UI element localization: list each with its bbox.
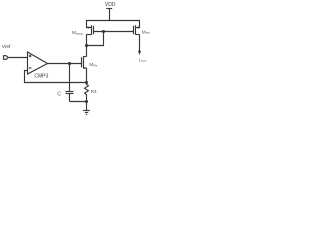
svg-text:VDD: VDD — [105, 2, 116, 8]
wire bottom node line — [70, 101, 87, 103]
label MRla — [89, 62, 97, 68]
wire diode connection — [87, 32, 104, 46]
label CMP3 — [34, 73, 48, 79]
wire Iout drain down — [139, 35, 141, 52]
svg-text:M: M — [72, 30, 76, 36]
transistor MPTI (right PMOS) — [134, 25, 140, 35]
wire R4 bottom — [86, 95, 88, 111]
op-amp CMP3 — [28, 52, 48, 74]
port Vref input pin — [4, 56, 9, 60]
wire left drain down — [86, 35, 88, 57]
svg-text:R4: R4 — [91, 89, 97, 95]
wire left source drop — [87, 21, 92, 28]
VDD power symbol — [106, 9, 112, 21]
svg-text:Vref: Vref — [2, 44, 11, 50]
node output/C junction — [68, 62, 71, 65]
label Iout — [139, 57, 147, 63]
svg-text:CMP3: CMP3 — [34, 73, 48, 79]
svg-text:OUT: OUT — [141, 59, 147, 63]
node feedback junction — [85, 81, 88, 84]
svg-text:M: M — [142, 29, 146, 35]
wire Vref to +input — [8, 57, 28, 59]
node gate-drain junction — [102, 30, 105, 33]
ground — [83, 111, 90, 115]
label C — [57, 91, 61, 97]
label MPTI — [142, 29, 151, 35]
wire shared gate line — [94, 31, 134, 33]
capacitor C — [66, 64, 74, 102]
svg-text:M: M — [89, 62, 93, 68]
label R4 — [91, 89, 97, 95]
transistor MRla (NMOS) — [82, 56, 87, 69]
svg-text:PTCB: PTCB — [76, 32, 83, 36]
VDD label — [105, 2, 116, 8]
wire feedback line — [25, 71, 87, 83]
node drain junction — [85, 44, 88, 47]
wire right source drop — [136, 21, 141, 28]
wire VDD rail — [86, 20, 140, 22]
label Vref — [2, 44, 11, 50]
svg-text:PTI: PTI — [146, 31, 151, 35]
transistor MPTCB (left PMOS) — [87, 25, 94, 35]
Iout arrowhead — [138, 51, 141, 55]
wire source down to node — [86, 68, 88, 84]
svg-text:C: C — [57, 91, 61, 97]
wire output to gate — [48, 63, 82, 65]
label MPTCB — [72, 30, 83, 36]
resistor R4 — [85, 84, 89, 94]
svg-text:Rla: Rla — [93, 64, 97, 68]
node bottom junction — [85, 100, 88, 103]
